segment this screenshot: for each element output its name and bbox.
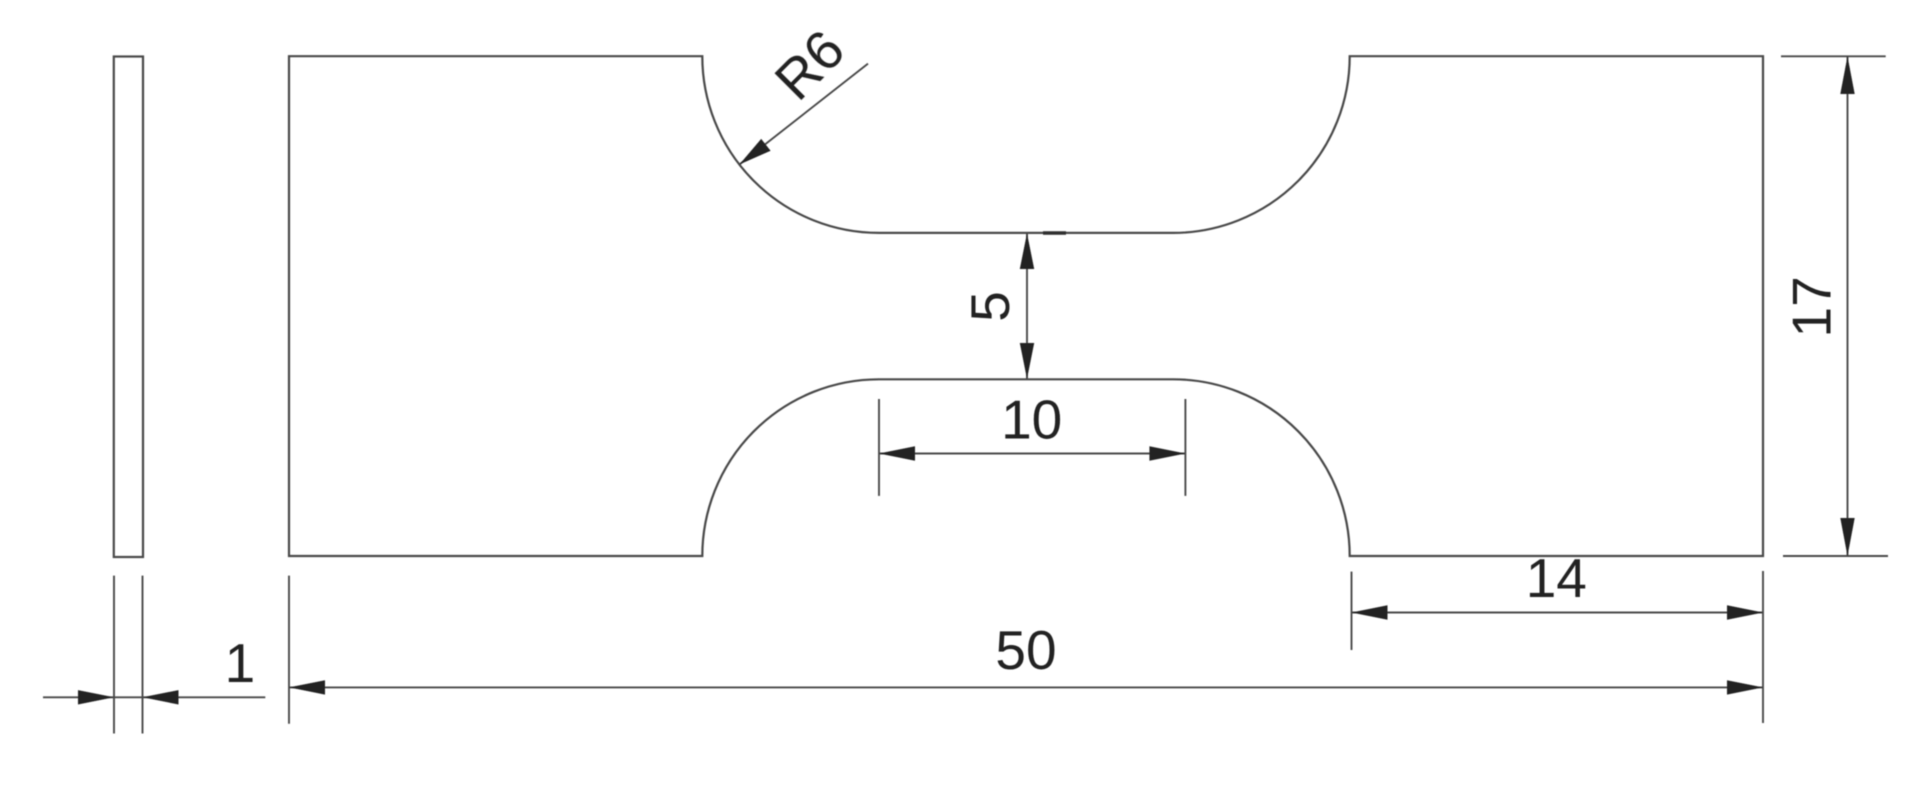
arrowhead 50 right bbox=[1727, 680, 1763, 694]
arrowhead R6 bbox=[739, 139, 770, 165]
extension line bottom (17) bbox=[1783, 555, 1888, 557]
dimension line 1 bbox=[43, 696, 265, 698]
arrowhead 5 bottom bbox=[1020, 343, 1034, 379]
dimension line 50 bbox=[289, 686, 1763, 688]
svg-text:10: 10 bbox=[1001, 389, 1062, 451]
extension line gauge left (10) bbox=[878, 399, 880, 496]
arrowhead 14 right bbox=[1727, 605, 1763, 619]
extension line side-view left bbox=[113, 576, 115, 734]
specimen side view (thickness) rectangle bbox=[114, 57, 143, 558]
specimen front view outline (dog-bone) bbox=[289, 56, 1763, 556]
dimension line 17 bbox=[1847, 56, 1849, 556]
arrowhead 5 top bbox=[1020, 233, 1034, 269]
arrowhead 17 bottom bbox=[1840, 518, 1854, 556]
dimension line 14 bbox=[1352, 612, 1764, 614]
extension line front-view left (50) bbox=[288, 576, 290, 724]
extension line fillet corner (14) bbox=[1351, 572, 1353, 650]
extension line side-view right bbox=[142, 576, 144, 734]
arrowhead 14 left bbox=[1352, 605, 1388, 619]
leader line R6 bbox=[739, 64, 868, 165]
extension line gauge right (10) bbox=[1184, 399, 1186, 496]
dimension line 5 bbox=[1026, 233, 1028, 379]
arrowhead 10 left bbox=[879, 446, 915, 460]
svg-text:5: 5 bbox=[959, 291, 1021, 322]
extension line front-view right (14/50) bbox=[1762, 571, 1764, 723]
svg-text:50: 50 bbox=[995, 619, 1056, 681]
svg-text:14: 14 bbox=[1526, 547, 1587, 609]
arrowhead 1 left bbox=[78, 690, 114, 704]
dimension line 10 bbox=[879, 453, 1185, 455]
svg-text:17: 17 bbox=[1780, 276, 1842, 337]
extension line top (17) bbox=[1781, 55, 1886, 57]
arrowhead 50 left bbox=[289, 680, 325, 694]
arrowhead 10 right bbox=[1149, 446, 1185, 460]
arrowhead 1 right bbox=[143, 690, 179, 704]
wire-like dark artifact segment on gauge top edge bbox=[1043, 231, 1066, 234]
arrowhead 17 top bbox=[1840, 56, 1854, 94]
svg-text:1: 1 bbox=[225, 632, 256, 694]
